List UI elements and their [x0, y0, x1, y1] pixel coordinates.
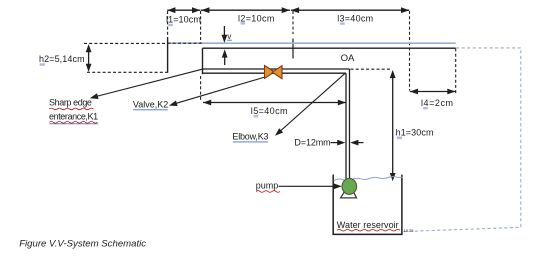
label l5=40cm: [251, 106, 288, 117]
channel top line: [203, 47, 456, 49]
vertical pipe inner line: [345, 73, 347, 180]
h2 dimension arrow: [86, 44, 92, 72]
extension dashed line x455: [455, 49, 457, 95]
dimension line l1: [167, 7, 200, 13]
svg-text:l3=40cm: l3=40cm: [337, 13, 373, 23]
svg-text:Elbow,K3: Elbow,K3: [232, 132, 268, 142]
label l2=10cm: [238, 13, 275, 24]
extension dashed line x167: [167, 11, 169, 38]
label l3=40cm: [337, 13, 373, 24]
vertical pipe outer line: [349, 69, 351, 180]
tank left wall: [167, 37, 169, 72]
h1 dimension arrow: [390, 70, 396, 181]
dashed extension at pipe top right: [351, 68, 393, 70]
label Valve K2: [133, 100, 168, 110]
dimension line l5: [203, 100, 346, 106]
label v: [227, 32, 232, 41]
extension dashed line x409: [409, 11, 411, 91]
label l4=2cm: [421, 98, 454, 110]
svg-text:l5=40cm: l5=40cm: [251, 106, 288, 116]
diameter arrows: [331, 140, 364, 146]
label h2=5,14cm: [39, 54, 85, 66]
label pump: [256, 180, 280, 192]
svg-text:OA: OA: [341, 53, 355, 64]
light blue dashed boundary path: [403, 48, 521, 232]
pump stand: [341, 191, 357, 198]
leader arrow sharp edge entrance: [90, 69, 203, 99]
dimension line l2: [201, 7, 290, 13]
svg-text:Water reservoir: Water reservoir: [337, 220, 399, 230]
water surface wavy line: [334, 177, 403, 181]
free surface line OA: [168, 42, 456, 44]
label l1=10cm: [166, 14, 201, 26]
svg-text:Figure V.V-System Schematic: Figure V.V-System Schematic: [19, 239, 146, 250]
leader arrow elbow: [275, 73, 346, 136]
svg-text:h1=30cm: h1=30cm: [396, 127, 434, 137]
svg-text:l2=10cm: l2=10cm: [238, 13, 275, 23]
svg-text:Valve,K2: Valve,K2: [133, 100, 168, 110]
water reservoir tank: [333, 175, 402, 235]
h2 dashed top extension: [84, 42, 168, 44]
velocity arrow v: [222, 26, 228, 43]
h2 dashed bottom extension: [87, 71, 168, 73]
svg-text:Sharp edge: Sharp edge: [49, 97, 92, 107]
extension dashed line x200 upper: [200, 11, 202, 43]
dashes over surface inside tank: [168, 42, 203, 44]
svg-text:enterance,K1: enterance,K1: [49, 111, 98, 121]
label sharp edge enterance K1: [49, 97, 98, 123]
label Elbow K3: [232, 132, 268, 142]
svg-text:l4=2cm: l4=2cm: [421, 98, 454, 108]
up arrow under channel top: [222, 49, 228, 65]
pump circle: [342, 178, 357, 194]
channel left wall: [202, 48, 204, 74]
label Water reservoir: [337, 220, 400, 231]
pipe top line: [203, 68, 350, 70]
svg-text:h2=5,14cm: h2=5,14cm: [39, 54, 85, 64]
svg-text:v: v: [227, 32, 231, 41]
valve K2 bowtie: [265, 66, 283, 79]
svg-text:l1=10cm: l1=10cm: [166, 14, 201, 24]
leader arrow valve: [169, 77, 265, 106]
svg-text:15.75: 15.75: [404, 228, 415, 233]
pipe bottom line: [203, 72, 347, 74]
dimension line l3: [291, 7, 409, 13]
extension dashed line x200 lower: [200, 76, 202, 102]
label h1=30cm: [396, 127, 434, 139]
dimension line l4: [410, 89, 456, 95]
pump leader arrow: [279, 183, 342, 189]
extension dashed line x293: [292, 11, 294, 59]
svg-text:pump: pump: [256, 180, 279, 190]
svg-text:D=12mm: D=12mm: [294, 138, 330, 148]
